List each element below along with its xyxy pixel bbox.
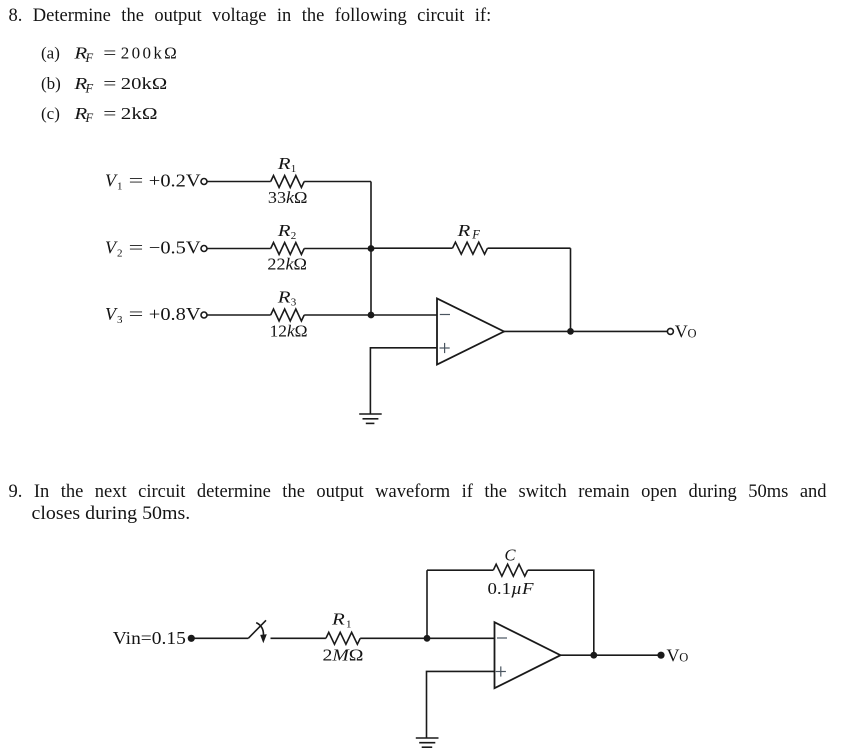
item (b) label RF = 20k <box>41 74 167 95</box>
ground 2 <box>416 738 439 747</box>
svg-text:F: F <box>85 81 94 95</box>
label Vo 2 <box>667 646 689 666</box>
svg-text:V: V <box>675 322 688 342</box>
svg-text:20kΩ: 20kΩ <box>121 74 167 93</box>
svg-text:closes during 50ms.: closes during 50ms. <box>32 504 191 524</box>
op-amp U1 <box>437 299 504 365</box>
node C junction dot <box>424 635 431 642</box>
label RF <box>456 221 480 242</box>
terminal Vo 2 (filled) <box>657 652 664 659</box>
svg-text:(a): (a) <box>41 44 60 63</box>
svg-text:R: R <box>331 609 345 628</box>
op-amp U1 plus pin mark <box>440 343 450 353</box>
resistor R3 <box>271 309 304 321</box>
wire R2 to node A <box>304 248 371 250</box>
wire node B to op-amp inverting input <box>371 314 437 316</box>
source label V2 = -0.5V <box>105 238 201 260</box>
node B junction dot <box>368 312 375 319</box>
wire node C up to capacitor <box>426 570 428 638</box>
svg-text:+0.2V: +0.2V <box>149 171 201 191</box>
node output junction dot <box>567 328 574 335</box>
wire vertical summing bus <box>370 182 372 316</box>
svg-text:−0.5V: −0.5V <box>149 238 201 258</box>
svg-text:R: R <box>277 154 291 173</box>
svg-text:2: 2 <box>291 230 297 242</box>
svg-text:=: = <box>129 171 144 191</box>
svg-text:F: F <box>85 51 94 65</box>
wire V3 to R3 <box>207 314 271 316</box>
svg-text:1: 1 <box>346 619 352 631</box>
svg-text:2MΩ: 2MΩ <box>323 645 364 664</box>
ground 1 <box>359 414 382 423</box>
svg-text:1: 1 <box>117 181 123 193</box>
svg-text:2kΩ: 2kΩ <box>121 104 158 123</box>
op-amp U2 plus pin mark <box>496 666 506 676</box>
svg-text:O: O <box>679 651 688 665</box>
wire V1 to R1 <box>207 181 271 183</box>
label Vo <box>675 322 697 342</box>
resistor R2 <box>271 243 304 255</box>
wire Vin to switch <box>193 637 248 639</box>
switch S1 closing arrow <box>256 623 267 644</box>
wire op-amp U2 noninverting input to ground <box>427 671 495 738</box>
svg-text:R: R <box>456 221 470 240</box>
svg-text:8. Determine the output voltag: 8. Determine the output voltage in the f… <box>9 6 492 26</box>
wire V2 to R2 <box>207 248 271 250</box>
svg-text:1: 1 <box>291 163 297 175</box>
svg-text:22kΩ: 22kΩ <box>267 255 307 274</box>
svg-text:+0.8V: +0.8V <box>149 304 201 324</box>
svg-text:=: = <box>103 44 116 63</box>
item (c) label RF = 2k <box>41 104 158 125</box>
svg-text:=: = <box>129 304 144 324</box>
wire feedback vertical <box>570 248 572 331</box>
svg-text:9. In the next circuit determi: 9. In the next circuit determine the out… <box>9 482 828 502</box>
svg-text:(c): (c) <box>41 104 60 123</box>
terminal Vo (open) <box>667 328 673 334</box>
svg-text:=: = <box>129 238 144 258</box>
svg-text:R: R <box>277 221 291 240</box>
svg-text:3: 3 <box>117 314 123 326</box>
label R1 <box>277 154 297 175</box>
svg-text:O: O <box>688 327 697 341</box>
wire node A to RF <box>371 247 453 249</box>
source label V1 = +0.2V <box>105 171 201 193</box>
svg-text:F: F <box>471 228 480 242</box>
svg-text:V: V <box>667 646 680 666</box>
wire op-amp output to Vo <box>504 330 667 332</box>
item (a) label RF = 200k <box>41 44 177 65</box>
svg-text:0.1µF: 0.1µF <box>488 579 535 598</box>
capacitor C (drawn as zigzag) <box>493 564 527 576</box>
terminal V1 <box>201 179 207 185</box>
resistor R1 (circuit 2) <box>326 632 360 644</box>
terminal Vin (filled) <box>188 635 195 642</box>
wire R3 to node B <box>304 314 371 316</box>
op-amp U1 minus pin mark <box>440 314 450 316</box>
svg-text:=: = <box>103 104 116 123</box>
svg-text:C: C <box>505 546 517 565</box>
svg-text:F: F <box>85 111 94 125</box>
svg-text:(b): (b) <box>41 74 61 93</box>
wire R1 to corner <box>304 181 371 183</box>
svg-text:R: R <box>277 288 291 307</box>
op-amp U2 minus pin mark <box>497 637 507 639</box>
wire R1 to op-amp inverting input <box>360 637 494 639</box>
wire capacitor right down to output <box>528 570 594 655</box>
wire to capacitor left <box>427 569 493 571</box>
svg-text:200kΩ: 200kΩ <box>121 44 177 63</box>
wire op-amp noninverting input to ground <box>370 348 437 414</box>
node A junction dot <box>368 245 375 252</box>
node output 2 junction dot <box>590 652 597 659</box>
terminal V2 <box>201 246 207 252</box>
svg-text:3: 3 <box>291 297 297 309</box>
label R3 <box>277 288 297 309</box>
resistor R1 <box>271 176 304 188</box>
svg-text:=: = <box>103 74 116 93</box>
label R2 <box>277 221 297 242</box>
source label V3 = +0.8V <box>105 304 201 326</box>
wire switch to R1 <box>271 637 326 639</box>
svg-text:33kΩ: 33kΩ <box>268 188 308 207</box>
svg-text:2: 2 <box>117 248 123 260</box>
svg-text:12kΩ: 12kΩ <box>270 321 308 340</box>
label R1 (circuit 2) <box>331 609 352 630</box>
resistor RF <box>453 242 488 254</box>
op-amp U2 <box>495 622 561 688</box>
svg-text:Vin=0.15: Vin=0.15 <box>113 628 186 648</box>
terminal V3 <box>201 312 207 318</box>
switch S1 blade <box>248 620 266 638</box>
wire op-amp U2 output to Vo <box>561 654 659 656</box>
wire RF to corner <box>488 247 571 249</box>
